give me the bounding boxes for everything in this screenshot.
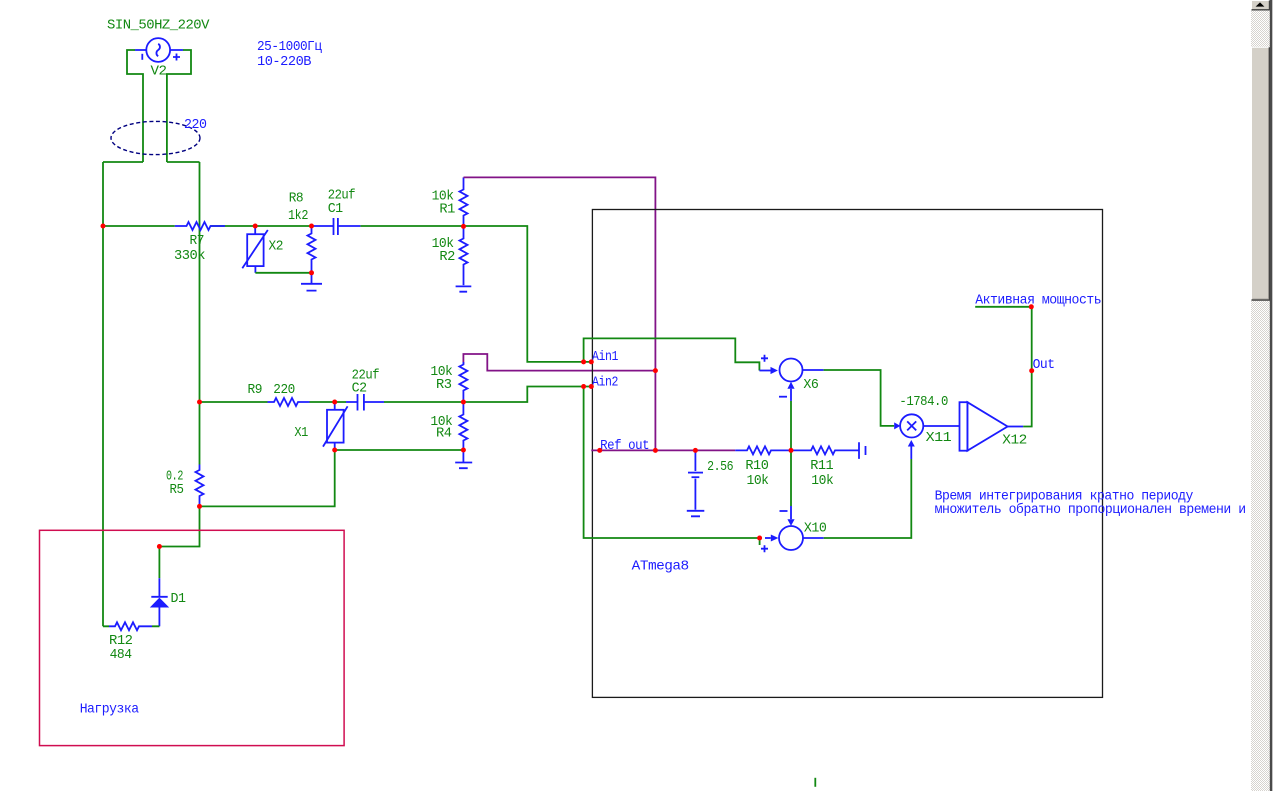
capacitor C2 22uf <box>346 368 384 411</box>
wire right rail down <box>199 162 201 465</box>
resistor R7 330k <box>174 222 225 264</box>
node junction purple Ain2 row <box>653 368 658 373</box>
svg-text:D1: D1 <box>171 591 186 607</box>
svg-text:V2: V2 <box>151 64 167 80</box>
svg-text:R5: R5 <box>170 482 184 498</box>
battery 2.56 reference <box>687 450 733 516</box>
wire V2 right loop <box>167 50 191 162</box>
svg-text:R1: R1 <box>439 201 455 217</box>
node junction purple Ref_out <box>653 448 658 453</box>
node junction X1 bottom <box>332 448 337 453</box>
svg-text:X1: X1 <box>294 425 308 441</box>
wire X6 output to X11 <box>803 369 824 371</box>
diode D1 <box>151 578 186 626</box>
wire Ain2 down to X10 plus <box>584 387 760 546</box>
wire left rail down <box>102 162 104 626</box>
varistor X1 <box>294 402 347 450</box>
node Ref_out pin dot <box>597 448 602 453</box>
svg-text:X10: X10 <box>804 521 827 537</box>
summer X10 <box>761 450 826 552</box>
svg-text:X6: X6 <box>803 377 818 393</box>
ground below R2 <box>456 286 472 291</box>
resistor R10 10k <box>735 446 791 489</box>
svg-text:220: 220 <box>184 117 207 133</box>
wire X12 output up to Aktivnaya moshchnost <box>975 307 1031 427</box>
varistor X2 <box>242 226 283 273</box>
svg-text:Ain2: Ain2 <box>592 374 618 390</box>
svg-text:330k: 330k <box>174 248 205 264</box>
node Ain2 pin dots <box>581 384 586 389</box>
svg-text:R8: R8 <box>289 190 304 206</box>
wire purple R1 top net <box>464 177 656 450</box>
wire left step at y=162 <box>103 161 143 163</box>
scrollbar thumb <box>1251 47 1270 301</box>
svg-text:R2: R2 <box>439 249 455 265</box>
resistor R11 10k <box>791 442 866 489</box>
note text integration time <box>935 488 1246 518</box>
node junction X1 tap <box>332 400 337 405</box>
ground below R4 <box>455 450 472 468</box>
wire down to D1 <box>158 547 160 579</box>
svg-text:1k2: 1k2 <box>288 208 308 224</box>
wire main row y=226 <box>103 226 592 362</box>
svg-text:10k: 10k <box>811 473 833 489</box>
ATmega8 box <box>592 210 1102 698</box>
multiplier X11 <box>894 394 951 446</box>
svg-text:Нагрузка: Нагрузка <box>80 702 139 718</box>
svg-text:X12: X12 <box>1002 433 1027 449</box>
svg-text:Ref_out: Ref_out <box>600 438 649 454</box>
resistor R12 484 <box>103 622 159 663</box>
svg-text:R10: R10 <box>745 458 768 474</box>
wire X2 bottom to R8 bottom <box>255 272 311 274</box>
svg-text:X11: X11 <box>926 430 952 446</box>
node junction D1 top <box>157 544 162 549</box>
svg-text:X2: X2 <box>269 239 284 255</box>
node junction X10 plus input <box>757 536 762 541</box>
wire right step at y=162 <box>167 161 200 163</box>
svg-text:10-220В: 10-220В <box>257 54 311 70</box>
svg-text:R7: R7 <box>190 233 205 249</box>
svg-text:множитель обратно пропорционал: множитель обратно пропорционален времени… <box>935 501 1246 518</box>
node Ain1 pin dots <box>581 359 586 364</box>
svg-text:C1: C1 <box>328 201 343 217</box>
node junction R8 bottom <box>309 270 314 275</box>
resistor R3 10k <box>430 362 467 402</box>
resistor R9 220 <box>248 382 310 406</box>
scrollbar track <box>1251 0 1270 791</box>
node junction X2 tap <box>253 224 258 229</box>
svg-text:R9: R9 <box>248 382 263 398</box>
wire X1 bottom down and left to R5 <box>200 450 335 506</box>
svg-text:R3: R3 <box>436 377 452 393</box>
node Ain2 <box>592 374 618 390</box>
node Aktivnaya pin dot <box>1029 304 1034 309</box>
window border right <box>1270 0 1273 791</box>
wire X1 bottom row to R4 bottom <box>335 449 464 451</box>
svg-text:Активная мощность: Активная мощность <box>975 292 1101 308</box>
ground below R8 <box>301 273 322 291</box>
resistor R5 0.2 <box>166 465 204 507</box>
wire Ain1 to X6 plus <box>584 338 760 370</box>
svg-text:10k: 10k <box>747 473 769 489</box>
node junction R1/R2 divider <box>461 224 466 229</box>
capacitor C1 22uf <box>312 188 361 235</box>
svg-text:SIN_50HZ_220V: SIN_50HZ_220V <box>107 18 210 34</box>
wire R9 row y=402 <box>200 401 464 403</box>
svg-text:Out: Out <box>1033 357 1055 373</box>
summer X6 <box>759 355 818 451</box>
node junction R5 bottom <box>197 504 202 509</box>
wire purple R3 top net <box>463 354 655 371</box>
buffer X12 <box>923 402 1027 451</box>
svg-text:2.56: 2.56 <box>707 459 733 475</box>
svg-text:R11: R11 <box>810 458 833 474</box>
node junction R10 R11 <box>789 448 794 453</box>
resistor R1 10k <box>432 177 468 226</box>
label 25-1000Hz 10-220V <box>257 39 322 70</box>
node junction left rail <box>101 224 106 229</box>
svg-text:Ain1: Ain1 <box>592 349 618 365</box>
wire R5 bottom down to D1 branch <box>159 506 199 546</box>
node junction R8 top <box>309 224 314 229</box>
svg-text:ATmega8: ATmega8 <box>632 559 689 575</box>
node Out pin dot <box>1029 368 1034 373</box>
wire X10 output to X11 bottom <box>803 537 824 539</box>
source V2 SIN_50HZ_220V <box>107 18 210 80</box>
scrollbar up button <box>1251 0 1270 11</box>
wire R3/R4 junction to Ain2 <box>463 387 591 403</box>
wire V2 left loop <box>127 50 143 162</box>
node junction R3/R4 divider <box>461 400 466 405</box>
svg-text:484: 484 <box>110 647 132 663</box>
node Out <box>1033 357 1055 373</box>
svg-text:R4: R4 <box>436 426 452 442</box>
node Aktivnaya moshchnost <box>975 292 1101 308</box>
load box Nagruzka <box>40 530 345 745</box>
transformer ellipse 220 <box>111 117 207 155</box>
node Ain1 <box>592 349 618 365</box>
wire stub bottom <box>814 778 816 787</box>
svg-text:C2: C2 <box>352 381 367 397</box>
wire Ref_out purple row <box>591 449 735 451</box>
resistor R8 1k2 <box>288 190 316 272</box>
svg-text:220: 220 <box>273 382 295 398</box>
node Ref_out <box>600 438 649 454</box>
resistor R2 10k <box>432 226 468 285</box>
node junction battery tap <box>693 448 698 453</box>
svg-text:-1784.0: -1784.0 <box>899 394 948 410</box>
svg-text:25-1000Гц: 25-1000Гц <box>257 39 322 55</box>
node junction R4 bottom <box>461 448 466 453</box>
resistor R4 10k <box>430 402 467 450</box>
node junction R9 tap <box>197 400 202 405</box>
